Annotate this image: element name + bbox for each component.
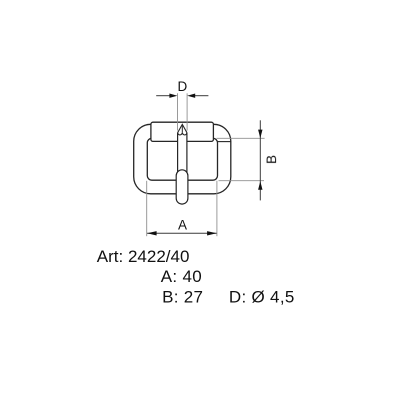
svg-text:D: Ø 4,5: D: Ø 4,5	[229, 288, 295, 307]
dimension D extension line left	[177, 93, 179, 130]
buckle outer frame	[134, 124, 231, 194]
prong shaft	[178, 131, 187, 173]
dimension D line right segment	[194, 95, 209, 97]
dimension A extension line right	[216, 181, 218, 236]
frame seam line right	[217, 141, 230, 143]
buckle inner frame	[147, 138, 217, 180]
dimension B line	[259, 120, 261, 200]
dimension A extension line left	[146, 181, 148, 236]
svg-text:A: A	[178, 217, 187, 232]
dimension D line left segment	[156, 95, 171, 97]
svg-text:Art: 2422/40: Art: 2422/40	[97, 247, 190, 266]
dimension B arrow bottom	[258, 181, 262, 190]
dimension D arrow left	[169, 94, 177, 98]
dimension B extension line top	[217, 137, 265, 139]
svg-text:B: B	[264, 155, 279, 164]
dimension B extension line bottom	[219, 180, 265, 182]
dimension D extension line right	[186, 93, 188, 130]
prong tip	[178, 124, 187, 134]
roller bar	[151, 122, 214, 141]
prong loop capsule	[176, 170, 188, 204]
svg-text:B: 27: B: 27	[162, 288, 203, 307]
dimension B arrow top	[258, 130, 262, 139]
dimension D arrow right	[187, 94, 195, 98]
svg-text:D: D	[178, 79, 188, 94]
dimension A line	[147, 232, 217, 234]
dimension A arrow right	[207, 231, 217, 235]
dimension A arrow left	[147, 231, 157, 235]
svg-text:A: 40: A: 40	[161, 267, 202, 286]
